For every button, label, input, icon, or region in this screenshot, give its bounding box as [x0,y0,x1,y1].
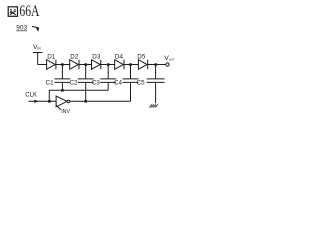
node: junction dot D5-VOUT/C5 [154,63,157,66]
inverter INV triangle [56,96,67,107]
wire: VIN input T-bar [33,52,43,54]
wire: main rail VIN to D1 anode [38,64,47,66]
wire: C4 bottom to INV output rail elbow [130,82,132,101]
diode D5 [138,60,147,70]
diode D4 [115,60,124,70]
capacitor C5 vertical top wire [155,65,157,79]
svg-text:VIN: VIN [33,44,41,51]
svg-text:903: 903 [16,25,27,32]
svg-text:VOUT: VOUT [164,55,175,62]
wire: D5 to VOUT terminal [148,64,166,66]
node: junction dot C2 on INV rail [85,100,88,103]
svg-text:D2: D2 [70,53,79,60]
node: junction dot D3-D4/C3 [107,63,110,66]
svg-text:C2: C2 [69,79,78,86]
diode D2 [70,60,79,70]
capacitor C3 plates [100,79,116,83]
wire: VIN vertical drop [37,53,39,65]
svg-text:D1: D1 [47,53,56,60]
capacitor C2 plates [78,79,94,83]
wire: D3 to D4 [101,64,115,66]
node: junction dot D4-D5/C4 [129,63,132,66]
inverter INV output bubble [67,100,70,103]
svg-text:D4: D4 [115,53,124,60]
capacitor C1 vertical top wire [61,65,63,79]
capacitor C4 plates [123,79,139,83]
node: junction dot C1 on CLK rail [61,89,64,92]
capacitor C2 vertical top wire [85,65,87,79]
svg-text:D5: D5 [137,53,146,60]
node: junction dot D2-D3/C2 [85,63,88,66]
svg-text:C4: C4 [114,79,123,86]
diode D3 [92,60,101,70]
wire: D4 to D5 [124,64,138,66]
wire: C1 bottom to CLK rail [61,82,63,90]
svg-text:66A: 66A [19,3,40,20]
svg-text:CLK: CLK [25,93,37,99]
capacitor C4 vertical top wire [130,65,132,79]
CLK input arrowhead [34,100,39,103]
wire: D2 to D3 [79,64,92,66]
CLK rail (top clock bus) [49,90,108,101]
wire: D1 to D2 [56,64,70,66]
diode D1 [47,60,56,70]
label 903 leader arrow line [32,26,36,29]
title kanji 図 (drawn) [8,7,17,16]
svg-text:C3: C3 [92,79,101,86]
node: junction dot CLK riser [48,100,51,103]
svg-text:C1: C1 [46,79,55,86]
VOUT terminal circle [166,63,169,66]
node: junction dot D1-D2/C1 [61,63,64,66]
903 leader arrowhead [35,26,39,32]
ground symbol (hatched earth) [149,104,157,107]
svg-text:C5: C5 [137,79,146,86]
wire: C3 bottom to CLK rail [107,82,109,90]
capacitor C1 plates [54,79,70,83]
svg-text:D3: D3 [92,53,101,60]
wire: CLK input lead [29,100,57,102]
wire: C2 bottom to INV output rail [85,82,87,101]
svg-text:INV: INV [61,109,70,115]
wire: C5 bottom to ground [155,82,157,103]
INV output rail (inverted clock bus) [70,100,131,102]
inverter INV leader tick [56,106,60,110]
capacitor C3 vertical top wire [107,65,109,79]
capacitor C5 plates [147,79,165,83]
